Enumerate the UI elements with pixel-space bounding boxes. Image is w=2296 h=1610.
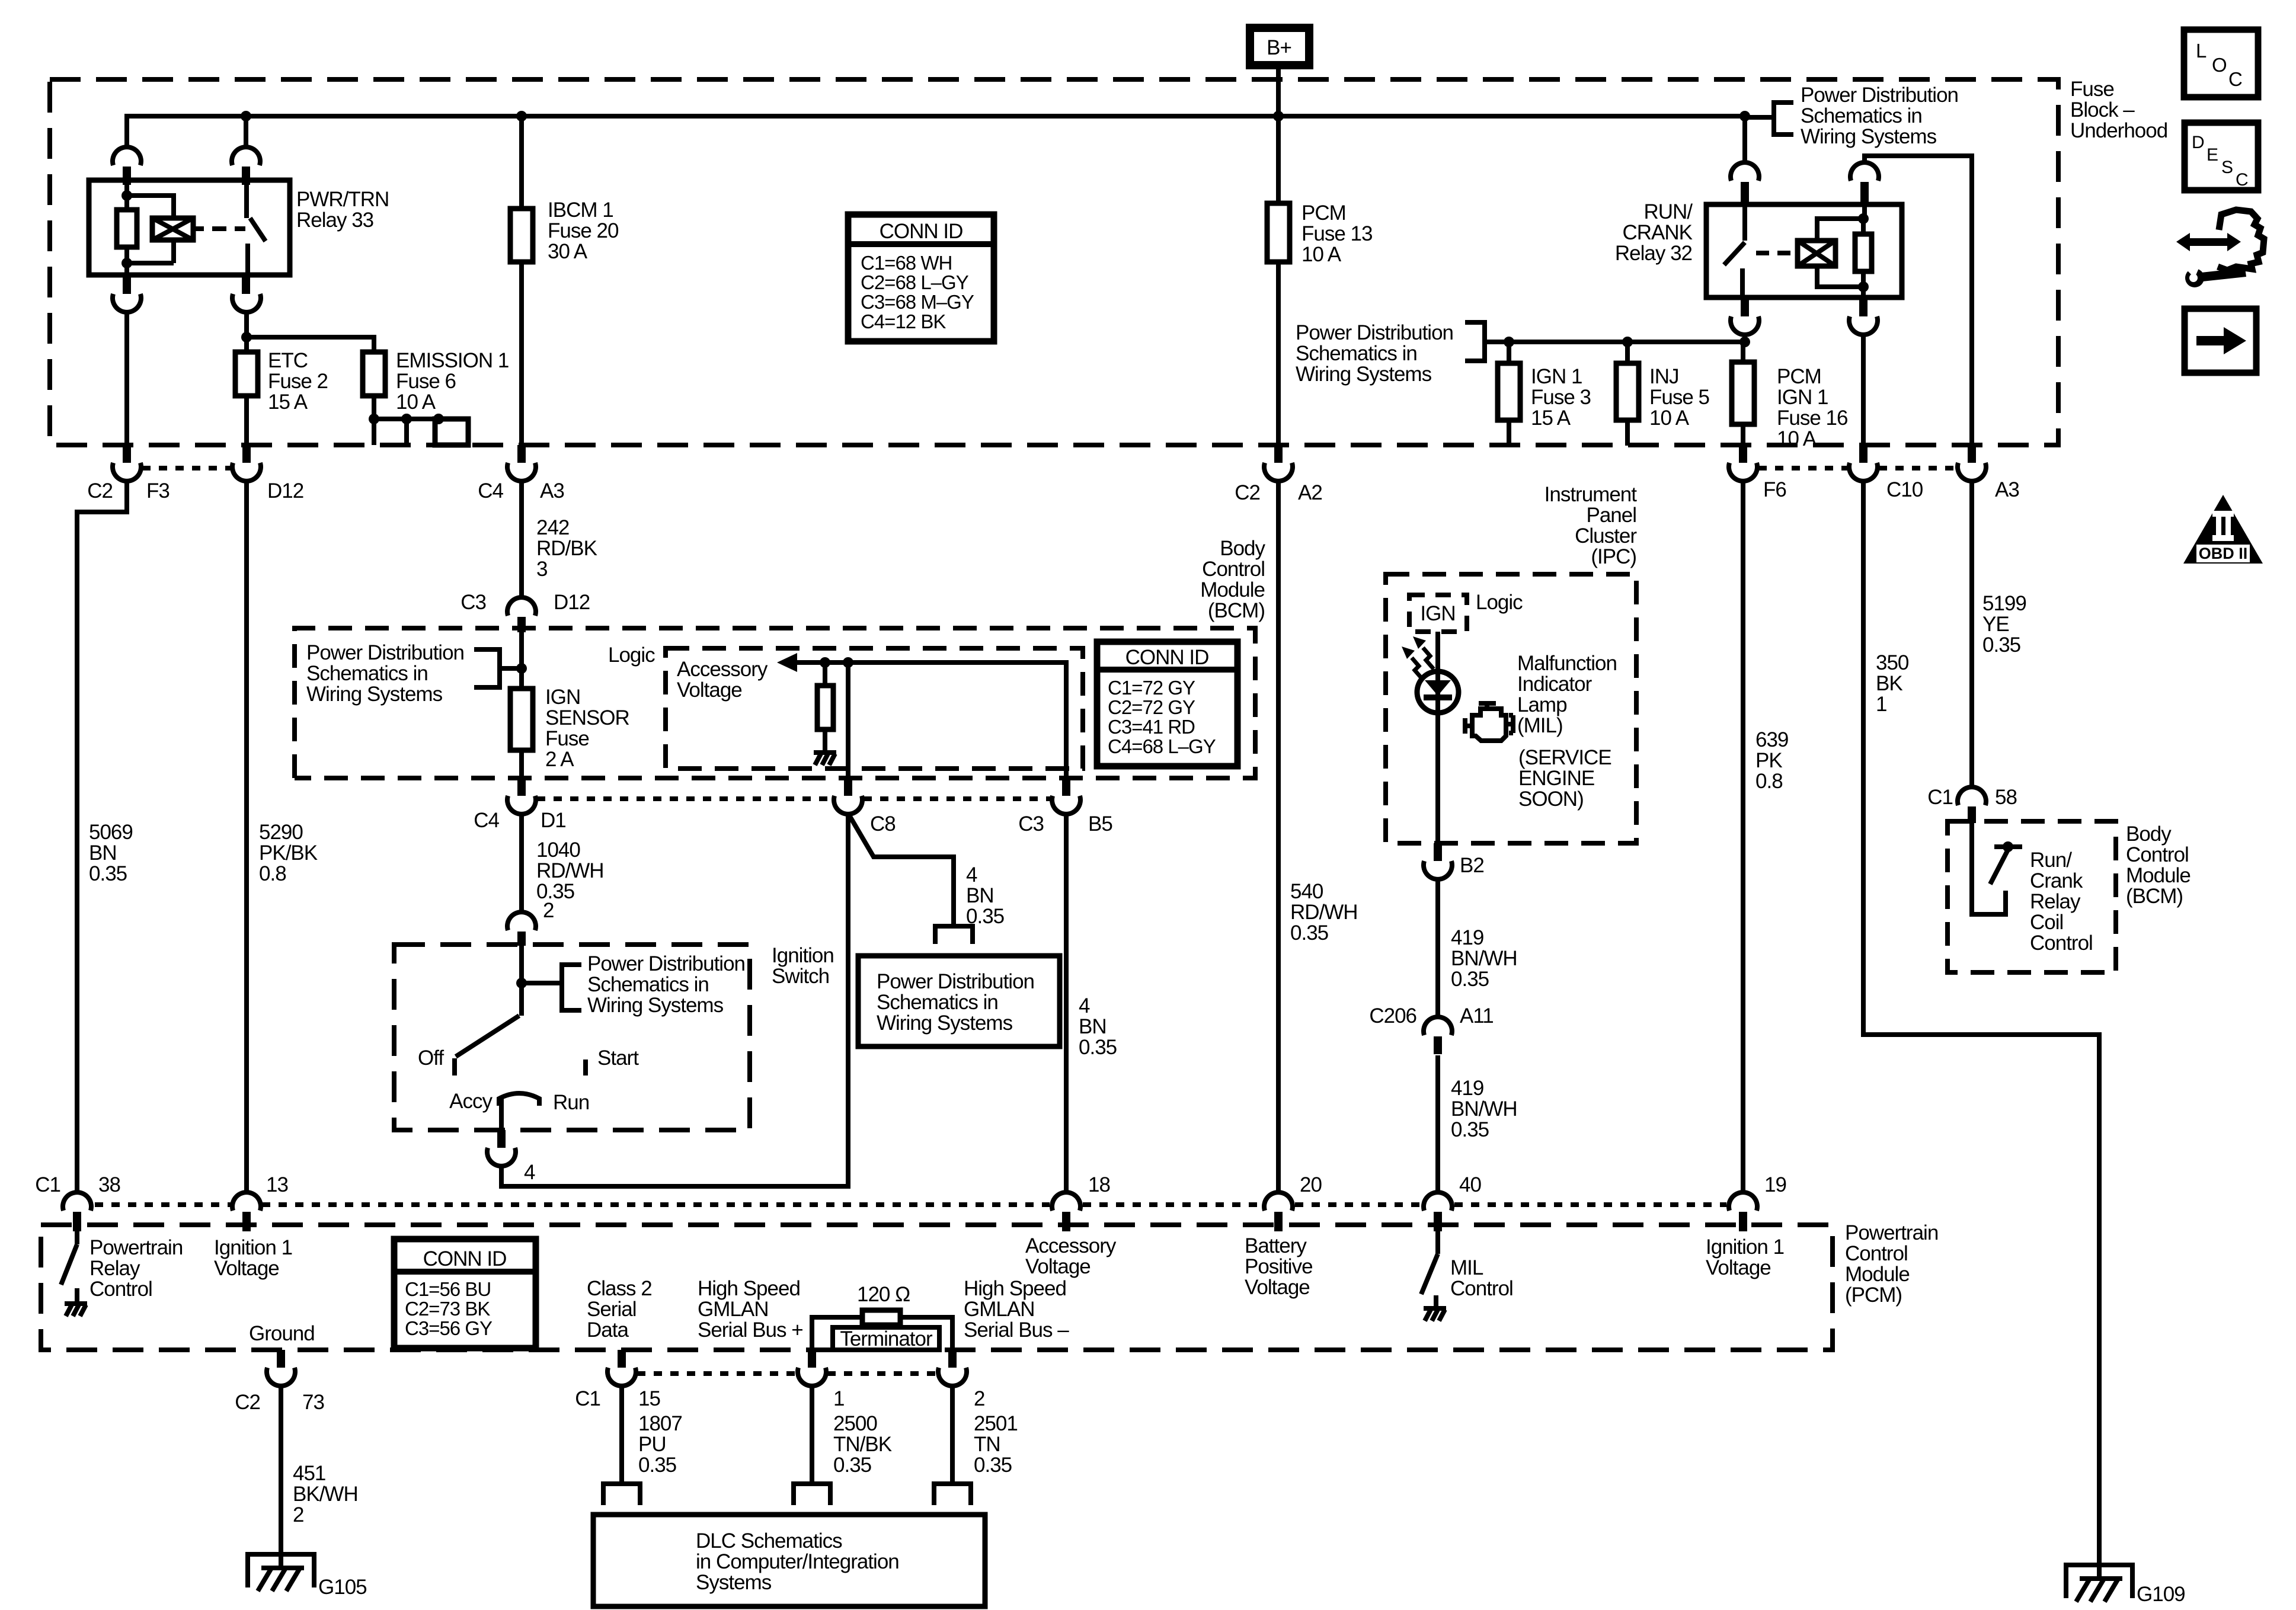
svg-text:C1: C1 <box>35 1173 60 1196</box>
svg-text:F3: F3 <box>146 479 170 502</box>
svg-text:Power Distribution: Power Distribution <box>306 641 464 664</box>
svg-text:C2: C2 <box>87 479 113 502</box>
wire ETC fuse to D12 connector <box>244 396 249 445</box>
BCM run/crank relay coil control dashed box <box>1948 821 2116 972</box>
ground G109 <box>2064 1563 2135 1602</box>
connector 20 at PCM <box>1264 1192 1293 1211</box>
svg-text:0.35: 0.35 <box>1290 921 1328 945</box>
svg-text:D12: D12 <box>267 479 303 502</box>
svg-text:Fuse 5: Fuse 5 <box>1649 386 1709 409</box>
connector C8 at BCM <box>844 778 852 796</box>
connector C2/A2 at fuse block <box>1274 445 1283 463</box>
svg-text:350: 350 <box>1876 651 1909 674</box>
connector 1 at PCM <box>808 1350 816 1368</box>
svg-text:IGN 1: IGN 1 <box>1531 365 1582 388</box>
dotted line C2 to D12 <box>142 466 232 470</box>
svg-text:Fuse: Fuse <box>545 727 589 750</box>
svg-text:IGN: IGN <box>545 686 580 709</box>
DLC schematics box <box>593 1515 985 1606</box>
svg-text:5199: 5199 <box>1982 592 2026 615</box>
svg-text:(BCM): (BCM) <box>2126 885 2183 908</box>
svg-text:58: 58 <box>1995 786 2017 809</box>
wire relay32 coil bottom to C10 <box>1861 335 1866 445</box>
svg-text:Wiring Systems: Wiring Systems <box>1296 363 1432 386</box>
terminator label box <box>833 1327 939 1350</box>
wire relay32 switch to fuse bus <box>1742 335 1747 342</box>
svg-text:Schematics in: Schematics in <box>1296 342 1417 365</box>
svg-text:IGN: IGN <box>1420 602 1455 625</box>
relay32 resistor <box>1855 234 1872 271</box>
svg-text:Voltage: Voltage <box>214 1257 279 1280</box>
svg-text:73: 73 <box>302 1391 324 1414</box>
dotted line DLC connector row <box>637 1371 937 1376</box>
svg-text:PWR/TRN: PWR/TRN <box>296 188 389 211</box>
svg-text:A2: A2 <box>1298 481 1322 504</box>
svg-text:(PCM): (PCM) <box>1845 1283 1902 1307</box>
svg-text:4: 4 <box>1079 994 1090 1017</box>
wire relay32 coil top to A3 drop <box>1865 156 1972 445</box>
svg-text:SENSOR: SENSOR <box>545 706 629 729</box>
connector D12 at fuse block <box>242 445 251 463</box>
svg-text:Malfunction: Malfunction <box>1517 652 1617 675</box>
svg-text:C206: C206 <box>1369 1004 1416 1028</box>
svg-text:Ignition 1: Ignition 1 <box>1706 1235 1784 1259</box>
svg-text:0.35: 0.35 <box>536 880 574 903</box>
Accy-Run contact arc <box>499 1093 539 1106</box>
svg-text:MIL: MIL <box>1450 1256 1483 1279</box>
EMISSION output connector square <box>435 419 468 445</box>
svg-text:EMISSION 1: EMISSION 1 <box>396 349 509 372</box>
wire B+ to bus <box>1276 65 1281 116</box>
svg-text:Power Distribution: Power Distribution <box>1296 321 1453 344</box>
connector pin relay33 coil top <box>113 147 141 165</box>
svg-text:CRANK: CRANK <box>1622 221 1692 244</box>
wire 5199 YE <box>1969 481 1974 787</box>
svg-text:1: 1 <box>1876 693 1886 716</box>
icon continuation arrow box <box>2185 309 2256 373</box>
connector pin relay32 coil top <box>1850 162 1879 181</box>
relay33 switch <box>247 185 266 275</box>
relay33 resistor <box>117 210 137 247</box>
Powertrain Control Module dashed box <box>41 1225 1833 1350</box>
MIL LED lamp <box>1417 671 1459 713</box>
svg-text:PK: PK <box>1755 749 1782 772</box>
svg-text:D: D <box>2192 133 2205 152</box>
svg-text:19: 19 <box>1764 1173 1786 1196</box>
wire PCM fuse 13 to C2/A2 connector <box>1276 262 1281 445</box>
fuse IGN 1 Fuse 3 <box>1507 342 1511 363</box>
connector pin relay32 coil bottom <box>1859 297 1868 316</box>
svg-text:4: 4 <box>966 863 977 886</box>
svg-text:Block –: Block – <box>2070 98 2135 121</box>
svg-text:YE: YE <box>1982 613 2009 636</box>
svg-text:GMLAN: GMLAN <box>698 1298 768 1321</box>
connector C2/73 ground at PCM <box>277 1350 285 1368</box>
svg-text:38: 38 <box>98 1173 120 1196</box>
svg-text:15 A: 15 A <box>1531 406 1571 430</box>
svg-text:0.8: 0.8 <box>1755 770 1783 793</box>
svg-text:2501: 2501 <box>974 1412 1018 1435</box>
connector 2 at PCM <box>948 1350 957 1368</box>
icon OBD II <box>2183 495 2263 564</box>
icon vehicle service <box>2176 210 2264 287</box>
connector C1/38 at PCM <box>63 1192 91 1211</box>
connector A3 right at fuse block <box>1968 445 1976 463</box>
connector pin relay32 switch bottom <box>1741 297 1749 316</box>
connector F6 at fuse block <box>1739 445 1747 463</box>
svg-text:Logic: Logic <box>1476 591 1523 614</box>
connector C3/D12 inline <box>507 597 536 616</box>
relay32 coil wires <box>1817 202 1865 297</box>
svg-text:C1=56 BU: C1=56 BU <box>405 1278 491 1300</box>
svg-text:Serial: Serial <box>587 1298 636 1321</box>
svg-text:Off: Off <box>418 1046 444 1070</box>
svg-text:Ignition 1: Ignition 1 <box>214 1236 292 1259</box>
svg-text:Underhood: Underhood <box>2070 119 2167 142</box>
node bus-relay33 <box>241 111 251 121</box>
svg-text:Body: Body <box>2126 822 2172 846</box>
dotted line F6 to A3 <box>1758 466 1956 470</box>
svg-text:Schematics in: Schematics in <box>1801 104 1922 127</box>
bracket ignition reference <box>522 962 581 1013</box>
svg-text:C2=72 GY: C2=72 GY <box>1108 696 1195 718</box>
svg-text:A3: A3 <box>1995 478 2019 501</box>
svg-text:30 A: 30 A <box>548 240 588 263</box>
svg-text:0.35: 0.35 <box>974 1454 1012 1477</box>
relay32 coil symbol <box>1798 241 1835 266</box>
run/crank coil control switch <box>1972 823 2006 914</box>
svg-text:OBD II: OBD II <box>2199 545 2248 562</box>
svg-text:Accy: Accy <box>449 1090 493 1113</box>
svg-text:Relay: Relay <box>89 1257 140 1280</box>
svg-text:Voltage: Voltage <box>677 678 742 702</box>
connector C4/A3 at fuse block <box>517 445 526 463</box>
svg-text:Module: Module <box>1200 578 1265 601</box>
svg-text:2: 2 <box>543 899 554 922</box>
accessory arrow <box>777 653 797 672</box>
wire 1807 PU <box>619 1386 624 1484</box>
svg-text:E: E <box>2207 145 2218 165</box>
svg-text:High Speed: High Speed <box>964 1277 1066 1300</box>
ignition switch dashed box <box>394 945 750 1130</box>
svg-text:0.35: 0.35 <box>1451 1118 1489 1141</box>
wire relay33 switch to ETC fuse <box>244 312 249 352</box>
svg-text:Module: Module <box>2126 864 2191 887</box>
svg-text:C3: C3 <box>1018 812 1044 836</box>
svg-text:Control: Control <box>1845 1242 1908 1265</box>
svg-text:Body: Body <box>1220 537 1265 560</box>
svg-text:Accessory: Accessory <box>677 658 768 681</box>
wire C8 to power distribution splice <box>849 815 954 926</box>
ground G105 <box>245 1552 316 1591</box>
svg-text:18: 18 <box>1088 1173 1110 1196</box>
splice connector ignition feed <box>935 926 973 944</box>
accessory wire <box>797 662 1066 778</box>
svg-text:Voltage: Voltage <box>1706 1256 1771 1279</box>
svg-text:Lamp: Lamp <box>1517 693 1567 716</box>
relay33 coil symbol <box>152 218 193 240</box>
chassis ground accessory <box>814 753 836 765</box>
svg-text:Ground: Ground <box>249 1322 315 1345</box>
node bus-relay32 <box>1739 111 1750 121</box>
svg-text:C3=56 GY: C3=56 GY <box>405 1317 493 1339</box>
icon LOC box <box>2184 30 2258 97</box>
svg-text:C2=73 BK: C2=73 BK <box>405 1298 490 1320</box>
svg-text:Serial Bus –: Serial Bus – <box>964 1318 1069 1342</box>
wire 4 BN (B5 to 18) <box>1064 814 1069 1192</box>
fuse IGN SENSOR Fuse 2A <box>510 689 533 750</box>
svg-text:C4=68 L–GY: C4=68 L–GY <box>1108 735 1216 757</box>
svg-text:Fuse 2: Fuse 2 <box>268 370 328 393</box>
node ETC/EMISSION split <box>241 332 252 343</box>
svg-text:Switch: Switch <box>772 965 829 988</box>
BCM inner accessory dashed box <box>666 648 1083 769</box>
svg-text:Coil: Coil <box>2030 911 2063 934</box>
svg-text:L: L <box>2196 40 2207 62</box>
Instrument Panel Cluster dashed box <box>1386 574 1636 843</box>
svg-text:(IPC): (IPC) <box>1591 545 1636 568</box>
svg-text:G109: G109 <box>2137 1583 2185 1606</box>
bracket top right reference <box>1745 100 1793 137</box>
svg-text:C2: C2 <box>235 1391 260 1414</box>
relay32 switch <box>1724 202 1745 297</box>
svg-text:20: 20 <box>1300 1173 1322 1196</box>
connector C10 at fuse block <box>1859 445 1868 463</box>
svg-text:0.8: 0.8 <box>259 862 286 885</box>
relay32 actuator dashes <box>1756 251 1790 255</box>
fuse PCM Fuse 13 <box>1267 203 1290 262</box>
svg-text:BN: BN <box>89 841 117 865</box>
connector 4 at ignition switch <box>497 1130 506 1148</box>
svg-text:451: 451 <box>293 1462 325 1485</box>
svg-text:Class 2: Class 2 <box>587 1277 652 1300</box>
LED emission arrows <box>1402 636 1434 679</box>
svg-text:Relay 32: Relay 32 <box>1615 242 1692 265</box>
svg-text:2 A: 2 A <box>545 748 574 771</box>
svg-text:CONN ID: CONN ID <box>423 1247 507 1270</box>
connector C2/F3 at fuse block <box>123 445 131 463</box>
engine icon <box>1472 709 1506 741</box>
svg-text:C1: C1 <box>575 1387 600 1410</box>
fuse bus wire <box>1485 340 1745 344</box>
svg-text:Powertrain: Powertrain <box>89 1236 183 1259</box>
svg-text:C1=72 GY: C1=72 GY <box>1108 677 1195 699</box>
svg-text:PCM: PCM <box>1302 201 1346 225</box>
svg-text:G105: G105 <box>318 1576 367 1599</box>
powertrain relay control switch <box>61 1225 77 1304</box>
svg-text:242: 242 <box>536 516 569 539</box>
wire to EMISSION fuse <box>247 337 374 352</box>
svg-text:Fuse 6: Fuse 6 <box>396 370 456 393</box>
main B+ bus wire <box>127 116 1745 162</box>
svg-text:RUN/: RUN/ <box>1643 200 1693 223</box>
svg-text:Fuse 3: Fuse 3 <box>1531 386 1591 409</box>
svg-text:C4: C4 <box>474 809 499 832</box>
svg-text:PU: PU <box>638 1433 666 1456</box>
wire 540 RD/WH <box>1276 481 1281 1192</box>
svg-text:Fuse 16: Fuse 16 <box>1777 406 1847 430</box>
svg-text:1: 1 <box>833 1387 844 1410</box>
connector C206/A11 inline <box>1424 1017 1452 1035</box>
wire 350 BK <box>1863 481 2099 1578</box>
svg-text:C1=68 WH: C1=68 WH <box>861 252 952 274</box>
connector C4/D1 at BCM <box>517 778 526 796</box>
MIL control switch <box>1421 1225 1438 1308</box>
fuse PCM IGN 1 Fuse 16 <box>1741 342 1745 362</box>
wire 419 BN/WH upper <box>1435 879 1440 1017</box>
ignition switch feed wire <box>519 945 524 1016</box>
svg-text:Power Distribution: Power Distribution <box>1801 84 1958 107</box>
svg-text:C3=41 RD: C3=41 RD <box>1108 716 1195 738</box>
svg-text:CONN ID: CONN ID <box>880 220 963 243</box>
svg-text:ENGINE: ENGINE <box>1518 767 1594 790</box>
svg-text:Positive: Positive <box>1245 1255 1313 1278</box>
bracket fuse bus reference <box>1465 320 1485 363</box>
connector pin relay33 coil bottom <box>123 275 131 294</box>
relay PWR/TRN Relay 33 <box>89 116 389 312</box>
svg-text:Instrument: Instrument <box>1544 483 1638 506</box>
connector 19 at PCM <box>1729 1192 1757 1211</box>
svg-text:5069: 5069 <box>89 821 133 844</box>
svg-text:Power Distribution: Power Distribution <box>587 952 745 975</box>
svg-text:C2: C2 <box>1235 481 1260 504</box>
connector C1/15 at PCM <box>618 1350 626 1368</box>
svg-text:BK: BK <box>1876 672 1902 695</box>
svg-text:C3=68 M–GY: C3=68 M–GY <box>861 291 974 313</box>
CONN ID table BCM <box>1097 642 1237 766</box>
svg-text:Voltage: Voltage <box>1025 1255 1091 1278</box>
CONN ID table fuse block <box>848 215 994 341</box>
svg-text:High Speed: High Speed <box>698 1277 800 1300</box>
svg-text:F6: F6 <box>1763 478 1786 501</box>
svg-text:Fuse 13: Fuse 13 <box>1302 222 1372 245</box>
IGN logic box <box>1409 595 1467 632</box>
wire 242 RD/BK <box>519 481 524 597</box>
svg-text:Module: Module <box>1845 1263 1910 1286</box>
B+ battery feed box <box>1250 28 1309 65</box>
svg-text:Wiring Systems: Wiring Systems <box>587 994 724 1017</box>
connector C3/B5 at BCM <box>1062 778 1070 796</box>
svg-text:Crank: Crank <box>2030 869 2083 892</box>
fuse block underhood dashed box <box>50 79 2058 445</box>
svg-text:Battery: Battery <box>1245 1234 1307 1257</box>
svg-text:B2: B2 <box>1460 854 1484 877</box>
svg-text:Fuse: Fuse <box>2070 78 2114 101</box>
svg-text:Control: Control <box>2126 843 2189 866</box>
svg-text:B5: B5 <box>1088 812 1112 836</box>
svg-text:C4=12 BK: C4=12 BK <box>861 311 946 332</box>
svg-text:Indicator: Indicator <box>1517 673 1593 696</box>
splice connector DLC 1 <box>794 1484 830 1505</box>
svg-text:PK/BK: PK/BK <box>259 841 318 865</box>
wire 2501 TN <box>950 1386 955 1484</box>
connector 2 at ignition switch <box>507 912 536 930</box>
svg-text:2: 2 <box>293 1503 303 1526</box>
svg-text:B+: B+ <box>1267 36 1291 59</box>
fuse INJ Fuse 5 <box>1625 342 1630 363</box>
svg-text:Relay 33: Relay 33 <box>296 209 373 232</box>
svg-text:Ignition: Ignition <box>772 944 834 967</box>
svg-text:1807: 1807 <box>638 1412 682 1435</box>
svg-text:10 A: 10 A <box>1777 427 1817 450</box>
svg-text:15: 15 <box>638 1387 660 1410</box>
svg-text:C3: C3 <box>461 591 486 614</box>
fuse IBCM 1 Fuse 20 <box>510 209 533 262</box>
Body Control Module outer dashed box <box>295 628 1255 778</box>
svg-text:D12: D12 <box>554 591 590 614</box>
svg-text:Power Distribution: Power Distribution <box>877 970 1034 993</box>
svg-text:10 A: 10 A <box>1649 406 1690 430</box>
wire 5069 BN <box>77 481 127 1192</box>
svg-text:BK/WH: BK/WH <box>293 1483 358 1506</box>
ignition switch output wire <box>499 1096 504 1130</box>
splice connector DLC 15 <box>603 1484 640 1505</box>
wire bus to PCM fuse 13 <box>1276 116 1281 203</box>
svg-text:A3: A3 <box>540 479 564 502</box>
svg-text:TN/BK: TN/BK <box>833 1433 892 1456</box>
relay33 coil wires <box>127 185 174 275</box>
terminator resistor <box>812 1317 952 1350</box>
wire 2500 TN/BK <box>810 1386 814 1484</box>
wire 451 BK/WH <box>279 1386 283 1567</box>
svg-text:0.35: 0.35 <box>833 1454 871 1477</box>
svg-text:Schematics in: Schematics in <box>306 662 428 685</box>
svg-text:BN: BN <box>1079 1015 1107 1038</box>
svg-text:Wiring Systems: Wiring Systems <box>1801 125 1937 148</box>
connector C1/58 inline <box>1958 787 1986 805</box>
svg-text:120 Ω: 120 Ω <box>857 1283 910 1306</box>
fuse EMISSION 1 Fuse 6 <box>363 352 385 396</box>
svg-text:2500: 2500 <box>833 1412 877 1435</box>
svg-text:INJ: INJ <box>1649 365 1679 388</box>
svg-text:Wiring Systems: Wiring Systems <box>306 683 443 706</box>
svg-text:Run/: Run/ <box>2030 849 2072 872</box>
svg-text:C2=68 L–GY: C2=68 L–GY <box>861 271 969 293</box>
wire 419 BN/WH lower <box>1435 1055 1440 1192</box>
EMISSION output bus <box>374 419 468 445</box>
dotted line BCM connector row <box>537 796 1051 801</box>
svg-text:BN: BN <box>966 884 994 907</box>
svg-text:Panel: Panel <box>1586 504 1636 527</box>
svg-text:(BCM): (BCM) <box>1208 599 1265 622</box>
wire 5290 PK/BK <box>244 481 249 1192</box>
svg-text:0.35: 0.35 <box>1982 633 2020 657</box>
svg-text:Logic: Logic <box>608 644 655 667</box>
svg-text:CONN ID: CONN ID <box>1125 646 1209 669</box>
CONN ID table PCM <box>394 1239 536 1348</box>
svg-text:S: S <box>2221 158 2233 177</box>
svg-text:RD/WH: RD/WH <box>536 859 604 882</box>
svg-text:Systems: Systems <box>696 1571 772 1594</box>
svg-text:Powertrain: Powertrain <box>1845 1221 1938 1244</box>
svg-text:C: C <box>2236 170 2249 190</box>
wire 639 PK <box>1741 481 1745 1192</box>
svg-text:13: 13 <box>266 1173 288 1196</box>
svg-text:RD/BK: RD/BK <box>536 537 597 560</box>
svg-text:1040: 1040 <box>536 838 580 862</box>
svg-text:(SERVICE: (SERVICE <box>1518 746 1611 769</box>
connector pin relay33 switch bottom <box>242 275 250 294</box>
svg-text:IGN 1: IGN 1 <box>1777 386 1828 409</box>
svg-text:Relay: Relay <box>2030 890 2081 913</box>
connector pin relay32 switch top <box>1731 162 1759 181</box>
svg-text:Data: Data <box>587 1318 629 1342</box>
svg-text:GMLAN: GMLAN <box>964 1298 1034 1321</box>
accessory resistor <box>823 662 827 686</box>
svg-text:0.35: 0.35 <box>1079 1036 1117 1059</box>
svg-text:Accessory: Accessory <box>1025 1234 1117 1257</box>
svg-text:Control: Control <box>1202 558 1265 581</box>
